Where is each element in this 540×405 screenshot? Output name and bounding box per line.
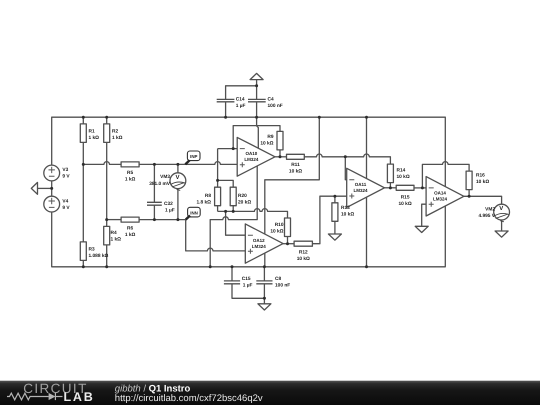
svg-text:OA14: OA14 bbox=[434, 191, 446, 196]
svg-text:LAB: LAB bbox=[64, 390, 95, 404]
svg-text:VM2: VM2 bbox=[485, 206, 495, 212]
svg-text:1 kΩ: 1 kΩ bbox=[111, 236, 122, 242]
svg-text:LM324: LM324 bbox=[433, 197, 448, 202]
svg-text:INN: INN bbox=[190, 211, 198, 216]
svg-text:R13: R13 bbox=[341, 205, 350, 211]
svg-text:C8: C8 bbox=[275, 276, 281, 282]
svg-text:LM324: LM324 bbox=[353, 188, 368, 193]
svg-text:10 kΩ: 10 kΩ bbox=[260, 140, 273, 146]
svg-text:1 kΩ: 1 kΩ bbox=[89, 135, 100, 141]
svg-text:4.995 V: 4.995 V bbox=[478, 213, 495, 219]
svg-text:100 nF: 100 nF bbox=[275, 283, 290, 289]
svg-text:R4: R4 bbox=[111, 230, 117, 236]
svg-text:1 kΩ: 1 kΩ bbox=[112, 135, 123, 141]
svg-text:C14: C14 bbox=[236, 96, 245, 102]
svg-text:V3: V3 bbox=[62, 167, 68, 173]
svg-text:C4: C4 bbox=[268, 96, 274, 102]
svg-text:10 kΩ: 10 kΩ bbox=[289, 169, 302, 175]
svg-text:LM324: LM324 bbox=[252, 244, 267, 249]
svg-text:1 kΩ: 1 kΩ bbox=[125, 232, 136, 238]
svg-text:1 µF: 1 µF bbox=[243, 283, 253, 289]
svg-text:1 µF: 1 µF bbox=[236, 103, 246, 109]
svg-text:V: V bbox=[499, 205, 503, 212]
svg-text:1 kΩ: 1 kΩ bbox=[125, 176, 136, 182]
svg-text:9 V: 9 V bbox=[62, 205, 70, 211]
svg-text:20 kΩ: 20 kΩ bbox=[238, 199, 251, 205]
svg-text:R12: R12 bbox=[299, 249, 308, 255]
svg-text:10 kΩ: 10 kΩ bbox=[399, 201, 412, 207]
svg-text:V4: V4 bbox=[62, 198, 68, 204]
svg-text:1.8 kΩ: 1.8 kΩ bbox=[196, 199, 211, 205]
svg-text:INP: INP bbox=[190, 154, 197, 159]
svg-text:http://circuitlab.com/cxf72bsc: http://circuitlab.com/cxf72bsc46q2v bbox=[115, 393, 263, 404]
svg-text:R15: R15 bbox=[401, 194, 410, 200]
svg-text:C32: C32 bbox=[164, 201, 173, 207]
svg-text:R16: R16 bbox=[476, 173, 485, 179]
svg-text:10 kΩ: 10 kΩ bbox=[476, 179, 489, 185]
svg-text:LM324: LM324 bbox=[244, 157, 259, 162]
svg-text:C15: C15 bbox=[242, 276, 251, 282]
svg-text:R11: R11 bbox=[291, 162, 300, 168]
svg-text:R8: R8 bbox=[205, 193, 211, 199]
svg-text:R20: R20 bbox=[238, 193, 247, 199]
svg-text:1.088 kΩ: 1.088 kΩ bbox=[89, 253, 109, 259]
svg-text:9 V: 9 V bbox=[62, 174, 70, 180]
svg-text:R1: R1 bbox=[89, 128, 95, 134]
svg-text:10 kΩ: 10 kΩ bbox=[270, 229, 283, 235]
svg-text:R9: R9 bbox=[267, 134, 273, 140]
svg-text:R10: R10 bbox=[275, 222, 284, 228]
svg-text:1 µF: 1 µF bbox=[165, 207, 175, 213]
svg-text:R2: R2 bbox=[112, 128, 118, 134]
svg-text:R14: R14 bbox=[397, 167, 406, 173]
svg-text:R6: R6 bbox=[127, 225, 133, 231]
svg-text:R5: R5 bbox=[127, 170, 133, 176]
svg-text:OA11: OA11 bbox=[355, 182, 367, 187]
svg-text:V: V bbox=[176, 174, 180, 181]
svg-text:10 kΩ: 10 kΩ bbox=[341, 212, 354, 218]
svg-text:R3: R3 bbox=[89, 246, 95, 252]
svg-text:381.0 mV: 381.0 mV bbox=[149, 181, 171, 187]
svg-text:10 kΩ: 10 kΩ bbox=[397, 174, 410, 180]
svg-text:OA12: OA12 bbox=[253, 238, 265, 243]
svg-text:OA10: OA10 bbox=[246, 151, 258, 156]
svg-text:VM3: VM3 bbox=[160, 174, 170, 180]
svg-text:10 kΩ: 10 kΩ bbox=[297, 256, 310, 262]
svg-text:100 nF: 100 nF bbox=[268, 103, 283, 109]
